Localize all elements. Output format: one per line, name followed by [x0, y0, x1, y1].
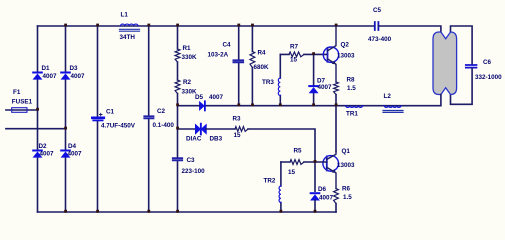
diode D3: [61, 65, 85, 80]
svg-text:R7: R7: [290, 44, 299, 51]
wire: C1 column x=97.5: [97, 26, 99, 212]
svg-text:4007: 4007: [319, 195, 334, 202]
svg-text:L1: L1: [121, 12, 129, 19]
wire: second bridge column x=65.5: [65, 26, 67, 212]
wire: midpoint left end: [178, 105, 200, 107]
wire: TR3 branch: [279, 54, 281, 105]
wire: top rail left of L1: [38, 25, 375, 27]
svg-text:4007: 4007: [71, 73, 86, 80]
svg-text:1.5: 1.5: [347, 85, 356, 92]
svg-text:F1: F1: [13, 89, 21, 96]
resistor R7: [280, 44, 327, 64]
transistor Q1: [323, 148, 355, 189]
capacitor C2: [144, 108, 174, 129]
wire: Q1 collector: [335, 106, 337, 152]
svg-text:332-1000: 332-1000: [475, 74, 502, 81]
capacitor C5: [368, 7, 392, 43]
svg-text:1.5: 1.5: [343, 194, 352, 201]
svg-text:TR1: TR1: [346, 111, 358, 118]
resistor R3: [233, 116, 249, 140]
diode D1: [33, 65, 57, 80]
svg-text:TR3: TR3: [262, 79, 274, 86]
svg-text:R5: R5: [294, 148, 303, 155]
resistor R5: [281, 148, 327, 177]
inductor L2: [383, 93, 403, 112]
svg-text:R1: R1: [183, 45, 192, 52]
svg-text:13003: 13003: [337, 162, 355, 169]
wire: left bridge column x=37.5: [37, 26, 39, 212]
svg-text:TR2: TR2: [264, 178, 276, 185]
inductor L1: [120, 12, 140, 42]
capacitor C1: [92, 109, 135, 130]
svg-text:15: 15: [288, 169, 296, 176]
transformer winding TR2: [264, 178, 281, 203]
svg-text:C1: C1: [106, 109, 115, 116]
svg-text:R8: R8: [347, 77, 356, 84]
capacitor C6: [466, 59, 502, 81]
resistor R4: [250, 50, 269, 72]
transformer winding TR3: [262, 78, 280, 96]
svg-text:223-100: 223-100: [182, 168, 206, 175]
svg-text:680K: 680K: [254, 64, 270, 71]
transistor Q2: [323, 26, 355, 82]
resistor R1: [175, 45, 197, 62]
wire: DIAC branch from R2 node: [178, 128, 197, 130]
capacitor C4: [208, 42, 244, 63]
svg-text:C4: C4: [223, 42, 232, 49]
svg-text:C2: C2: [157, 108, 166, 115]
svg-text:4007: 4007: [68, 151, 83, 158]
svg-text:15: 15: [234, 132, 242, 139]
wire: lamp top-right to C6: [451, 26, 473, 64]
svg-text:DIAC: DIAC: [186, 136, 202, 143]
wire: D6 to bottom rail: [314, 200, 316, 212]
wire: R3 to D6 column: [248, 129, 315, 191]
svg-text:4.7UF-450V: 4.7UF-450V: [101, 123, 136, 130]
resistor R8: [334, 77, 357, 106]
svg-text:103-2A: 103-2A: [208, 52, 229, 59]
svg-text:4007: 4007: [43, 73, 58, 80]
fuse F1: [6, 89, 38, 112]
svg-text:15: 15: [290, 57, 298, 64]
svg-text:L2: L2: [384, 93, 392, 100]
svg-text:C5: C5: [373, 7, 382, 14]
svg-text:473-400: 473-400: [368, 36, 392, 43]
wire: R4 column x=252.4: [251, 26, 253, 106]
wire: C4 column x=238.7: [238, 26, 240, 106]
svg-text:R6: R6: [342, 186, 351, 193]
wire: top rail C5 to lamp: [379, 26, 441, 33]
svg-text:FUSE1: FUSE1: [12, 99, 33, 106]
svg-text:D6: D6: [318, 186, 327, 193]
svg-text:R3: R3: [233, 116, 242, 123]
wire: AC neutral input: [6, 128, 66, 130]
svg-text:4007: 4007: [209, 94, 224, 101]
wire: C6 bottom to lamp bottom-right: [451, 69, 473, 105]
wire: TR2 branch: [280, 162, 282, 212]
wire: bottom rail: [38, 211, 337, 213]
svg-text:C6: C6: [483, 59, 492, 66]
capacitor C3: [173, 157, 205, 175]
diode D7: [309, 54, 332, 105]
svg-text:DB3: DB3: [210, 136, 223, 143]
wire: R1/R2/C3 column x=177.5: [177, 26, 179, 212]
svg-text:D3: D3: [70, 65, 79, 72]
svg-text:D4: D4: [68, 143, 77, 150]
svg-text:R4: R4: [258, 50, 267, 57]
svg-text:D1: D1: [42, 65, 51, 72]
resistor R6: [334, 186, 353, 213]
svg-text:Q2: Q2: [341, 42, 350, 49]
resistor R2: [175, 79, 197, 96]
diode D5: [195, 94, 224, 110]
svg-text:0.1-400: 0.1-400: [153, 122, 175, 129]
svg-text:13003: 13003: [337, 53, 355, 60]
svg-text:Q1: Q1: [342, 148, 351, 155]
svg-text:R2: R2: [183, 79, 192, 86]
svg-text:330K: 330K: [182, 89, 198, 96]
diac DB3: [186, 124, 223, 143]
svg-text:330K: 330K: [182, 54, 198, 61]
lamp tube: [433, 32, 457, 95]
svg-text:4007: 4007: [40, 151, 55, 158]
diode D4: [61, 143, 82, 158]
svg-text:D2: D2: [39, 143, 48, 150]
wire: C2 column x=148.7: [148, 26, 150, 212]
diode D2: [33, 143, 54, 158]
diode D6: [311, 186, 334, 202]
svg-text:C3: C3: [187, 157, 196, 164]
svg-text:34TH: 34TH: [120, 34, 136, 41]
svg-text:4007: 4007: [318, 84, 333, 91]
transformer winding TR1: [346, 106, 363, 118]
wire: lamp bottom-left pin to L2: [206, 95, 441, 106]
wire: diac to R3: [206, 128, 235, 130]
